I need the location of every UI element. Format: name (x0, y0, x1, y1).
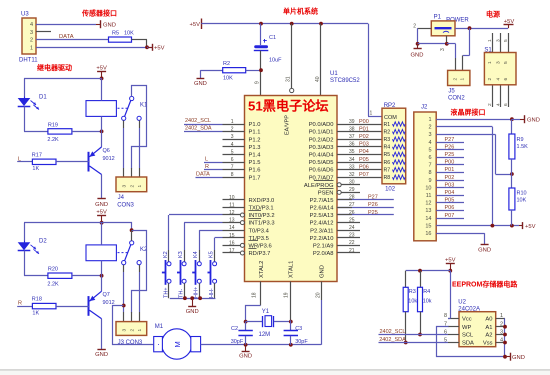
svg-text:GND: GND (411, 53, 424, 59)
svg-text:P0.0/AD0: P0.0/AD0 (309, 122, 334, 128)
svg-text:Q6: Q6 (103, 148, 110, 154)
svg-text:9: 9 (428, 178, 431, 184)
svg-text:4: 4 (30, 22, 33, 28)
svg-text:J2: J2 (421, 105, 428, 111)
svg-text:R5: R5 (384, 152, 391, 158)
svg-text:GND: GND (194, 81, 207, 87)
svg-text:2.2K: 2.2K (47, 282, 59, 288)
svg-text:2: 2 (487, 103, 493, 106)
svg-text:6: 6 (428, 155, 431, 161)
svg-text:D1: D1 (39, 94, 47, 100)
svg-text:COM: COM (384, 115, 397, 121)
svg-text:XTAL2: XTAL2 (259, 261, 265, 278)
svg-text:+5V: +5V (154, 46, 165, 52)
svg-text:4: 4 (495, 103, 501, 106)
svg-text:9: 9 (255, 81, 261, 84)
svg-text:2402_SCL: 2402_SCL (185, 118, 211, 124)
svg-text:6: 6 (503, 78, 509, 81)
svg-text:WP: WP (462, 325, 471, 331)
svg-text:12: 12 (425, 201, 431, 207)
svg-text:1: 1 (137, 329, 143, 332)
svg-text:P1: P1 (434, 14, 442, 20)
svg-text:R18: R18 (32, 297, 42, 303)
svg-text:5: 5 (503, 39, 509, 42)
svg-text:51黑电子论坛: 51黑电子论坛 (248, 98, 329, 114)
svg-text:3: 3 (122, 185, 128, 188)
svg-text:1: 1 (487, 39, 493, 42)
svg-text:+5V: +5V (190, 22, 201, 28)
svg-text:液晶屏接口: 液晶屏接口 (451, 108, 486, 117)
svg-text:P0.4/AD4: P0.4/AD4 (309, 153, 335, 159)
svg-text:继电器驱动: 继电器驱动 (37, 63, 72, 72)
svg-text:GND: GND (527, 117, 540, 123)
svg-text:4: 4 (428, 140, 431, 146)
svg-text:3: 3 (495, 61, 501, 64)
svg-text:PSEN: PSEN (318, 191, 334, 197)
svg-text:+5V: +5V (96, 65, 107, 71)
svg-text:P2.7/A15: P2.7/A15 (310, 198, 334, 204)
svg-text:1: 1 (30, 45, 33, 51)
svg-text:6: 6 (503, 103, 509, 106)
svg-text:P0.1/AD1: P0.1/AD1 (309, 130, 334, 136)
svg-text:R2: R2 (384, 129, 391, 135)
svg-text:EEPROM存储器电路: EEPROM存储器电路 (452, 279, 518, 288)
svg-text:10K: 10K (517, 198, 527, 204)
svg-text:1: 1 (137, 185, 143, 188)
svg-text:3: 3 (122, 329, 128, 332)
svg-text:1K: 1K (32, 310, 39, 316)
svg-text:2402_SDA: 2402_SDA (185, 126, 212, 132)
svg-text:1.5K: 1.5K (517, 144, 529, 150)
svg-text:P2.6/A14: P2.6/A14 (310, 206, 335, 212)
svg-text:2: 2 (413, 23, 416, 29)
svg-text:Q7: Q7 (103, 292, 110, 298)
svg-text:M: M (173, 341, 182, 347)
svg-text:DHT11: DHT11 (19, 58, 38, 64)
svg-text:11: 11 (426, 193, 432, 199)
svg-text:P00: P00 (445, 160, 455, 166)
svg-text:U1: U1 (330, 71, 338, 77)
svg-text:P04: P04 (445, 190, 455, 196)
svg-text:2: 2 (30, 38, 33, 44)
svg-text:P02: P02 (445, 175, 455, 181)
svg-text:P26: P26 (445, 144, 455, 150)
svg-text:CON3: CON3 (117, 203, 134, 209)
svg-text:K3: K3 (178, 251, 184, 258)
svg-text:T1/P3.5: T1/P3.5 (249, 236, 269, 242)
svg-text:SDA: SDA (462, 341, 474, 347)
svg-text:GND: GND (239, 354, 252, 360)
svg-text:2: 2 (487, 78, 493, 81)
svg-text:P03: P03 (445, 182, 455, 188)
svg-text:2.2K: 2.2K (47, 137, 59, 143)
svg-text:D2: D2 (39, 239, 47, 245)
svg-text:P2.3/A11: P2.3/A11 (310, 228, 333, 234)
svg-text:GND: GND (478, 248, 491, 254)
svg-text:A1: A1 (485, 325, 492, 331)
svg-text:2: 2 (129, 185, 135, 188)
svg-text:9012: 9012 (103, 156, 115, 162)
svg-text:R1: R1 (384, 122, 391, 128)
svg-text:GND: GND (512, 355, 525, 361)
svg-text:P1.4: P1.4 (249, 153, 262, 159)
svg-text:P1.3: P1.3 (249, 145, 261, 151)
svg-text:17: 17 (229, 248, 235, 254)
svg-text:R6: R6 (384, 160, 391, 166)
svg-text:P1.5: P1.5 (249, 160, 261, 166)
svg-text:GND: GND (186, 309, 199, 315)
svg-text:Vss: Vss (483, 341, 493, 347)
svg-text:3: 3 (428, 132, 431, 138)
svg-text:R4: R4 (423, 289, 430, 295)
svg-text:18: 18 (252, 292, 258, 298)
svg-text:10K: 10K (223, 75, 233, 81)
svg-text:P01: P01 (445, 167, 455, 173)
svg-text:R17: R17 (32, 152, 42, 158)
svg-text:13: 13 (425, 208, 431, 214)
svg-text:R9: R9 (517, 137, 524, 143)
svg-text:P25: P25 (445, 152, 455, 158)
svg-text:电源: 电源 (486, 10, 500, 19)
svg-text:31: 31 (286, 76, 292, 82)
svg-text:HH+: HH+ (194, 287, 200, 298)
svg-text:C2: C2 (231, 326, 238, 332)
svg-text:2: 2 (428, 125, 431, 131)
svg-text:CON2: CON2 (448, 95, 465, 101)
svg-text:+5V: +5V (525, 224, 536, 230)
svg-text:XTAL1: XTAL1 (289, 261, 295, 278)
svg-text:GND: GND (320, 265, 326, 278)
svg-text:RD/P3.7: RD/P3.7 (249, 251, 271, 257)
svg-text:J4: J4 (118, 195, 125, 201)
svg-text:R19: R19 (48, 122, 58, 128)
svg-text:3: 3 (30, 30, 33, 36)
svg-text:SCL: SCL (462, 333, 474, 339)
svg-text:1: 1 (460, 78, 466, 81)
svg-text:TH-: TH- (178, 289, 184, 298)
svg-text:20: 20 (316, 292, 322, 298)
svg-text:P2.5/A13: P2.5/A13 (310, 213, 334, 219)
svg-text:10K: 10K (124, 30, 134, 36)
svg-text:30pF: 30pF (295, 339, 308, 345)
svg-text:P27: P27 (445, 137, 455, 143)
svg-text:P06: P06 (445, 205, 455, 211)
svg-text:+5V: +5V (445, 258, 456, 264)
svg-text:12: 12 (229, 210, 235, 216)
svg-text:U2: U2 (458, 300, 466, 306)
svg-text:R20: R20 (48, 267, 58, 273)
svg-text:T0/P3.4: T0/P3.4 (249, 228, 270, 234)
svg-text:1: 1 (370, 111, 373, 117)
svg-text:1K: 1K (32, 166, 39, 172)
svg-text:5: 5 (503, 61, 509, 64)
svg-text:DATA: DATA (196, 172, 210, 178)
svg-text:P1.7: P1.7 (249, 175, 261, 181)
svg-text:K4: K4 (193, 251, 199, 258)
svg-text:3: 3 (495, 39, 501, 42)
svg-text:12M: 12M (259, 332, 271, 338)
svg-text:R5: R5 (112, 30, 119, 36)
svg-text:R4: R4 (384, 145, 391, 151)
svg-text:+5V: +5V (96, 210, 107, 216)
svg-text:A2: A2 (485, 333, 492, 339)
svg-text:M1: M1 (155, 324, 164, 330)
svg-text:A0: A0 (485, 317, 492, 323)
svg-text:10: 10 (425, 185, 431, 191)
svg-text:RXD/P3.0: RXD/P3.0 (249, 198, 275, 204)
svg-text:R8: R8 (384, 175, 391, 181)
svg-text:Y1: Y1 (262, 309, 270, 315)
svg-text:STC89C52: STC89C52 (330, 78, 360, 84)
svg-text:P2.0/A8: P2.0/A8 (313, 251, 334, 257)
svg-text:14: 14 (425, 216, 431, 222)
svg-text:P2.4/A12: P2.4/A12 (310, 221, 334, 227)
svg-text:4: 4 (495, 78, 501, 81)
svg-text:3: 3 (440, 48, 446, 51)
svg-text:16: 16 (425, 231, 431, 237)
svg-text:8: 8 (428, 170, 431, 176)
svg-text:40: 40 (315, 76, 321, 82)
svg-text:P2.1/A9: P2.1/A9 (313, 244, 334, 250)
svg-text:R10: R10 (517, 191, 527, 197)
svg-text:1: 1 (428, 117, 431, 123)
svg-text:GND: GND (95, 352, 108, 358)
svg-text:8: 8 (444, 313, 447, 319)
svg-text:K5: K5 (208, 251, 214, 258)
svg-text:R7: R7 (384, 167, 391, 173)
svg-text:2: 2 (453, 78, 459, 81)
svg-text:10k: 10k (408, 299, 417, 305)
svg-text:EA/VPP: EA/VPP (285, 115, 291, 135)
svg-text:传感器接口: 传感器接口 (81, 9, 117, 18)
svg-text:GND: GND (103, 22, 116, 28)
svg-text:INT1/P3.3: INT1/P3.3 (249, 221, 275, 227)
svg-text:C1: C1 (269, 35, 276, 41)
svg-text:P0.5/AD5: P0.5/AD5 (309, 160, 334, 166)
svg-text:P1.0: P1.0 (249, 122, 261, 128)
svg-text:7: 7 (428, 163, 431, 169)
svg-text:U3: U3 (21, 12, 29, 18)
svg-text:P1.2: P1.2 (249, 137, 261, 143)
svg-text:R2: R2 (223, 61, 230, 67)
svg-text:P0.3/AD3: P0.3/AD3 (309, 145, 334, 151)
svg-text:P1.1: P1.1 (249, 130, 261, 136)
svg-text:P0.2/AD2: P0.2/AD2 (309, 137, 334, 143)
svg-text:30pF: 30pF (231, 339, 244, 345)
svg-text:Vcc: Vcc (462, 317, 472, 323)
svg-text:P07: P07 (445, 213, 455, 219)
svg-text:10k: 10k (423, 299, 432, 305)
svg-text:GND: GND (95, 202, 108, 208)
svg-text:R: R (18, 301, 22, 307)
svg-text:P05: P05 (445, 198, 455, 204)
svg-text:R3: R3 (384, 137, 391, 143)
svg-text:2: 2 (129, 329, 135, 332)
svg-text:102: 102 (385, 187, 396, 193)
svg-text:19: 19 (284, 292, 290, 298)
svg-text:1: 1 (487, 61, 493, 64)
svg-text:L: L (205, 157, 208, 163)
svg-text:10uF: 10uF (269, 58, 282, 64)
svg-text:15: 15 (425, 223, 431, 229)
svg-text:ALE/PROG: ALE/PROG (304, 183, 334, 189)
svg-text:单片机系统: 单片机系统 (283, 7, 318, 16)
svg-text:J5: J5 (448, 88, 455, 94)
svg-text:P0.6/AD6: P0.6/AD6 (309, 168, 334, 174)
svg-text:R3: R3 (409, 289, 416, 295)
svg-text:P2.2/A10: P2.2/A10 (310, 236, 334, 242)
svg-text:K2: K2 (163, 251, 169, 258)
svg-text:5: 5 (428, 147, 431, 153)
svg-text:P1.6: P1.6 (249, 168, 261, 174)
